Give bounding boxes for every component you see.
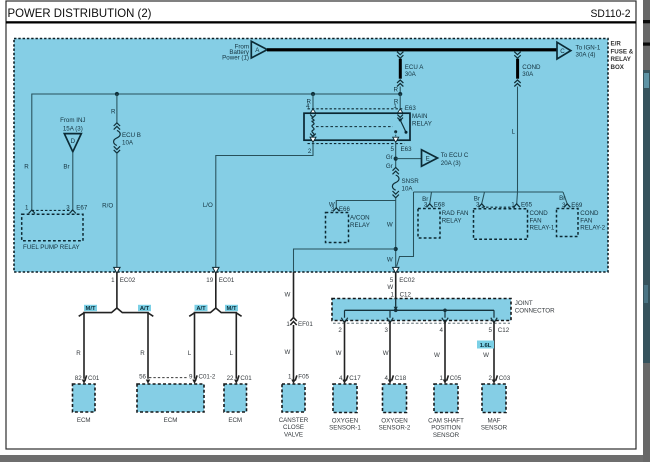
svg-text:SENSOR: SENSOR [481,425,508,432]
svg-text:Br: Br [63,164,69,171]
svg-text:L: L [230,350,234,357]
svg-text:To ECU C: To ECU C [441,152,469,159]
svg-text:A/T: A/T [196,306,206,312]
svg-text:19: 19 [206,277,213,284]
svg-text:56: 56 [139,374,146,381]
svg-text:ECM: ECM [77,417,91,424]
svg-text:W: W [383,350,389,357]
svg-text:C: C [560,48,565,55]
svg-text:C18: C18 [395,375,407,382]
svg-text:C01-2: C01-2 [199,374,216,381]
svg-text:3: 3 [476,201,480,208]
svg-text:R: R [394,87,399,94]
svg-text:L/O: L/O [203,202,213,209]
svg-text:E/R: E/R [611,41,622,48]
svg-text:RELAY-1: RELAY-1 [530,225,555,232]
svg-text:W: W [284,349,290,356]
svg-text:A/CON: A/CON [350,215,370,222]
svg-text:M/T: M/T [86,306,96,312]
svg-text:MAIN: MAIN [412,113,427,120]
svg-text:RELAY: RELAY [611,56,632,63]
svg-text:CLOSE: CLOSE [283,424,304,431]
svg-text:ECU B: ECU B [122,132,141,139]
svg-text:E63: E63 [401,146,413,153]
svg-text:Gr: Gr [386,163,393,170]
svg-text:COND: COND [580,210,599,217]
svg-text:FAN: FAN [580,217,592,224]
svg-text:Power (1): Power (1) [222,55,249,62]
svg-text:L: L [512,129,516,136]
svg-text:EC02: EC02 [399,277,415,284]
svg-text:W: W [483,352,489,359]
svg-text:1: 1 [440,375,444,382]
svg-text:CONNECTOR: CONNECTOR [515,307,555,314]
svg-text:JOINT: JOINT [515,300,533,307]
svg-text:SENSOR: SENSOR [433,432,460,439]
svg-text:1: 1 [25,205,29,212]
svg-text:W: W [387,257,393,264]
svg-text:C05: C05 [450,375,462,382]
svg-text:10A: 10A [402,186,414,193]
svg-text:F05: F05 [298,374,309,381]
svg-text:2: 2 [338,327,342,334]
svg-text:SENSOR-1: SENSOR-1 [329,425,361,432]
svg-text:POSITION: POSITION [431,425,461,432]
svg-text:M/T: M/T [227,306,237,312]
svg-text:4: 4 [385,375,389,382]
svg-text:1: 1 [111,277,115,284]
svg-text:C17: C17 [349,375,361,382]
svg-text:W: W [434,352,440,359]
svg-text:C03: C03 [499,375,511,382]
svg-text:30A: 30A [522,71,534,78]
svg-text:RELAY: RELAY [350,222,370,229]
svg-text:4: 4 [339,375,343,382]
svg-text:15A (3): 15A (3) [63,125,83,132]
svg-text:To IGN-1: To IGN-1 [576,45,601,52]
svg-text:EC01: EC01 [219,277,235,284]
svg-text:EC02: EC02 [120,277,136,284]
svg-text:3: 3 [424,201,428,208]
svg-text:RAD FAN: RAD FAN [442,210,469,217]
svg-text:W: W [387,284,393,291]
svg-text:30A: 30A [405,71,417,78]
svg-text:R/O: R/O [102,203,113,210]
svg-text:ECM: ECM [164,417,178,424]
svg-text:SENSOR-2: SENSOR-2 [379,425,411,432]
svg-text:RELAY-2: RELAY-2 [580,225,605,232]
svg-text:C01: C01 [88,375,100,382]
svg-text:C12: C12 [498,327,510,334]
svg-text:R: R [111,108,116,115]
svg-text:POWER DISTRIBUTION (2): POWER DISTRIBUTION (2) [8,6,152,20]
svg-text:10A: 10A [122,139,134,146]
svg-text:FUEL PUMP RELAY: FUEL PUMP RELAY [23,244,80,251]
svg-text:FAN: FAN [530,217,542,224]
svg-text:VALVE: VALVE [284,432,303,439]
svg-text:22: 22 [227,375,234,382]
svg-text:4: 4 [440,327,444,334]
svg-text:1: 1 [511,201,515,208]
svg-text:FUSE &: FUSE & [611,48,634,55]
svg-text:1.6L: 1.6L [480,343,492,349]
svg-text:From INJ: From INJ [60,117,85,124]
svg-text:COND: COND [522,64,541,71]
svg-text:CAM SHAFT: CAM SHAFT [428,417,464,424]
svg-text:E67: E67 [76,205,88,212]
svg-text:5: 5 [489,327,493,334]
svg-text:L: L [188,350,192,357]
svg-text:82: 82 [75,375,82,382]
svg-text:Gr: Gr [386,154,393,161]
svg-text:W: W [336,350,342,357]
svg-text:D: D [71,138,76,145]
svg-text:OXYGEN: OXYGEN [381,417,407,424]
svg-text:Br: Br [559,195,565,202]
svg-text:R: R [76,350,81,357]
svg-text:C01: C01 [240,375,252,382]
svg-text:A/T: A/T [140,306,150,312]
svg-text:1: 1 [391,291,395,298]
svg-text:5: 5 [391,146,395,153]
svg-text:30A (4): 30A (4) [576,52,596,59]
svg-text:W: W [387,221,393,228]
svg-text:SD110-2: SD110-2 [591,8,631,20]
svg-text:RELAY: RELAY [412,120,432,127]
svg-text:ECM: ECM [228,417,242,424]
svg-text:E: E [426,155,430,162]
svg-text:E68: E68 [434,201,446,208]
svg-text:2: 2 [489,375,493,382]
svg-text:R: R [24,164,29,171]
svg-text:CANSTER: CANSTER [279,417,309,424]
svg-text:MAF: MAF [487,417,500,424]
svg-text:W: W [284,292,290,299]
svg-text:COND: COND [530,210,549,217]
svg-text:R: R [140,350,145,357]
svg-text:2: 2 [308,148,312,155]
svg-text:BOX: BOX [611,64,625,71]
svg-text:3: 3 [385,327,389,334]
svg-text:EF01: EF01 [298,321,313,328]
svg-text:E63: E63 [405,105,417,112]
svg-text:1: 1 [286,321,290,328]
svg-text:20A (3): 20A (3) [441,160,461,167]
svg-text:C12: C12 [400,291,412,298]
svg-text:RELAY: RELAY [442,217,462,224]
svg-text:OXYGEN: OXYGEN [332,417,358,424]
svg-text:SNSR: SNSR [402,178,420,185]
svg-text:E65: E65 [521,201,533,208]
svg-text:ECU A: ECU A [405,64,424,71]
